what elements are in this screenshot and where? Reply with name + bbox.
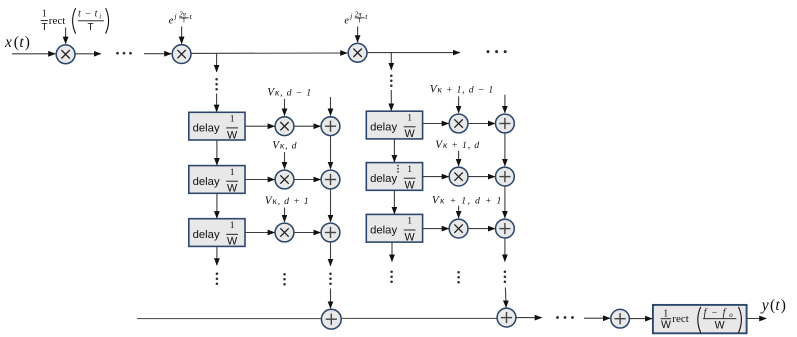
svg-text:j: j (349, 12, 352, 20)
svg-text:W: W (661, 319, 671, 331)
svg-text:1: 1 (407, 216, 412, 227)
svg-text:Vκ + 1, d: Vκ + 1, d (435, 139, 480, 151)
adder A22 (496, 167, 515, 186)
delay box D23 (delay 1/W) (366, 214, 422, 243)
svg-text:W: W (404, 180, 415, 192)
wire: V_kappa+1,d into M22 (458, 151, 460, 166)
svg-text:W: W (715, 320, 725, 332)
svg-text:W: W (404, 128, 415, 140)
multiplier M3 (branch kappa+1 modulator) (348, 43, 367, 62)
vertical ellipsis under multiplier column 2 (457, 271, 460, 284)
svg-text:): ) (25, 34, 30, 51)
wire: rect label arrow into M1 (65, 28, 67, 44)
wire: M1 output (75, 53, 101, 55)
svg-text:1: 1 (230, 114, 235, 125)
multiplier M2 (branch kappa modulator) (172, 45, 191, 64)
vertical ellipsis drop 2 (390, 75, 393, 88)
wire: D21 to multiplier M21 (423, 123, 449, 125)
wire: A21 to A22 (504, 133, 506, 166)
delay box D13 (delay 1/W) (189, 219, 245, 248)
wire: M22 to adder A22 (468, 176, 495, 178)
vertical ellipsis drop 1 (215, 78, 218, 91)
delay box D21 (delay 1/W) (366, 111, 422, 140)
label e^(j 2pi/T t) over M3 (344, 11, 368, 26)
vertical ellipsis under delay column 1 (216, 273, 219, 286)
wire: D11 to multiplier M11 (245, 125, 275, 127)
adder A23 (496, 219, 515, 238)
svg-text:(: ( (770, 297, 775, 314)
multiplier M22 (weight) (449, 167, 468, 186)
wire: D13 continuing down (216, 247, 218, 266)
bottom adder AB1 (321, 309, 341, 329)
wire: M3 output continuing right (367, 52, 460, 54)
svg-text:T: T (41, 22, 47, 33)
ellipsis top-left (116, 52, 132, 55)
wire: drop from M2 output toward delay column 1 (216, 53, 218, 72)
multiplier M23 (weight) (449, 219, 468, 238)
wire: M12 to adder A12 (294, 179, 321, 181)
svg-text:1: 1 (407, 164, 412, 175)
svg-text:i: i (99, 13, 101, 21)
delay box D12 (delay 1/W) (189, 166, 245, 195)
svg-text:e: e (169, 16, 174, 27)
label 1/T rect((t-t_i)/T) over M1 (41, 8, 109, 33)
svg-text:Vκ + 1, d − 1: Vκ + 1, d − 1 (430, 84, 494, 96)
wire: V_kappa,d into M12 (284, 152, 286, 169)
output filter box 1/W rect((f-f_o)/W) (653, 305, 747, 333)
wire: output filter to y(t) (747, 318, 767, 320)
svg-text:1: 1 (42, 9, 47, 20)
wire: M13 to adder A13 (294, 232, 321, 234)
wire: adder column 2 into bottom adder AB2 (504, 288, 507, 308)
wire: A11 to A12 (330, 136, 332, 169)
wire: D22 to D23 (393, 190, 395, 214)
wire: A13 down (330, 242, 332, 266)
wire: drop from M3 output toward delay column 2 (390, 53, 392, 70)
svg-text:Vκ + 1, d + 1: Vκ + 1, d + 1 (432, 194, 503, 206)
bottom adder AB2 (497, 308, 516, 327)
wire: into delay box D11 (216, 94, 218, 112)
svg-text:rect: rect (49, 15, 65, 27)
wire: A23 down (504, 238, 506, 261)
label x(t) input signal (4, 34, 30, 51)
svg-text:j: j (174, 12, 177, 20)
svg-text:−: − (712, 308, 718, 319)
final adder AB3 (611, 309, 630, 328)
wire: V_kappa+1,d+1 into M23 (458, 206, 460, 218)
svg-text:W: W (227, 236, 238, 248)
svg-text:delay: delay (370, 121, 397, 133)
wire: D11 to D12 (216, 140, 218, 165)
svg-text:−: − (85, 9, 91, 20)
wire: D12 to multiplier M12 (245, 179, 275, 181)
vertical ellipsis under adder column 2 (504, 271, 507, 284)
wire: M21 to adder A21 (468, 123, 495, 125)
wire: V_kappa,d-1 into M11 (284, 99, 286, 116)
svg-text:T: T (182, 17, 186, 24)
delay box D22 (delay 1/W) (366, 163, 422, 192)
multiplier M21 (weight) (449, 114, 468, 133)
multiplier M12 (weight) (275, 170, 294, 189)
ellipsis bottom (556, 316, 574, 319)
svg-text:t: t (95, 9, 98, 20)
multiplier M13 (weight) (275, 223, 294, 242)
label y(t) output signal (760, 297, 786, 314)
svg-text:x: x (4, 34, 12, 51)
svg-text:rect: rect (672, 313, 688, 325)
label e^(j 2pi/T t) over M2 (169, 11, 193, 26)
wire: D23 to multiplier M23 (423, 228, 449, 230)
wire: bottom summing bus left segment (137, 318, 322, 320)
wire: D22 to multiplier M22 (423, 176, 449, 178)
svg-text:e: e (344, 16, 349, 27)
adder A21 (496, 114, 515, 133)
svg-text:y: y (760, 297, 769, 314)
svg-text:1: 1 (230, 167, 235, 178)
svg-text:(: ( (14, 34, 19, 51)
wire: M11 to adder A11 (294, 125, 321, 127)
wire: stub into adder A11 from above (330, 97, 332, 116)
multiplier M11 (weight) (275, 117, 294, 136)
vertical ellipsis under delay column 2 (390, 271, 393, 284)
svg-text:delay: delay (193, 123, 220, 135)
wire: D12 to D13 (216, 193, 218, 218)
wire: into delay box D21 (390, 90, 392, 111)
svg-text:delay: delay (370, 225, 397, 237)
svg-text:delay: delay (193, 176, 220, 188)
adder A11 (321, 117, 340, 136)
svg-text:o: o (729, 311, 733, 319)
wire: M23 to adder A23 (468, 228, 495, 230)
wire: bottom bus between AB1 and AB2 (341, 317, 497, 319)
svg-text:t: t (78, 9, 81, 20)
svg-text:delay: delay (370, 173, 397, 185)
wire: A22 to A23 (504, 186, 506, 218)
wire: stub into adder A21 from above (504, 95, 506, 113)
wire: V_kappa+1,d-1 into M21 (458, 96, 460, 112)
vertical ellipsis under adder column 1 (329, 273, 332, 286)
svg-text:Vκ, d: Vκ, d (272, 140, 297, 152)
ellipsis top-right (487, 50, 507, 53)
svg-text:1: 1 (407, 112, 412, 123)
wire: AB2 output (516, 317, 542, 319)
wire: A12 to A13 (330, 189, 332, 222)
svg-text:t: t (19, 34, 24, 51)
wire: x(t) into multiplier M1 (12, 53, 55, 55)
delay box D11 (delay 1/W) (189, 112, 245, 141)
stray vertical dots artifact inside D22 (397, 165, 399, 173)
wire: adder column 1 into bottom adder AB1 (330, 289, 332, 309)
wire: into final adder AB3 (584, 317, 610, 319)
svg-text:delay: delay (193, 229, 220, 241)
multiplier M1 (input gating) (56, 45, 75, 64)
svg-text:W: W (227, 129, 238, 141)
svg-text:W: W (227, 183, 238, 195)
svg-text:Vκ, d + 1: Vκ, d + 1 (265, 195, 310, 207)
vertical ellipsis under multiplier column 1 (283, 273, 286, 286)
adder A13 (321, 223, 340, 242)
svg-text:): ) (781, 297, 786, 314)
wire: into multiplier M2 (144, 53, 171, 55)
svg-text:Vκ, d − 1: Vκ, d − 1 (267, 86, 312, 98)
wire: D13 to multiplier M13 (245, 232, 275, 234)
wire: D21 to D22 (393, 139, 395, 162)
wire: D23 continuing down (391, 242, 393, 261)
wire: M2 output to M3 (191, 52, 347, 54)
wire: exponential label arrow into M2 (181, 27, 183, 44)
svg-text:W: W (404, 231, 415, 243)
svg-text:T: T (358, 17, 362, 24)
svg-text:T: T (88, 22, 94, 33)
adder A12 (321, 170, 340, 189)
svg-text:1: 1 (663, 308, 668, 319)
svg-text:t: t (775, 297, 780, 314)
wire: AB3 into output filter box (629, 318, 652, 320)
wire: exponential label arrow into M3 (357, 27, 359, 43)
svg-text:1: 1 (230, 220, 235, 231)
wire: V_kappa,d+1 into M13 (284, 208, 286, 222)
